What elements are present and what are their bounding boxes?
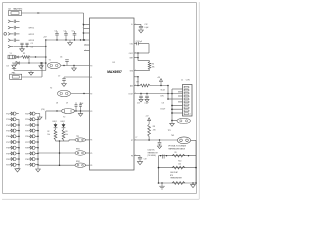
LED column B bus: [37, 119, 39, 164]
svg-text:470: 470: [153, 129, 156, 131]
wire OSC pin stub: [134, 57, 138, 59]
junction column B: [37, 136, 39, 138]
ground on T1 wire: [73, 66, 75, 69]
debounce capacitor C2: [25, 42, 28, 44]
LED column A cathode bus: [18, 119, 20, 164]
pushbutton PB1 body: [10, 74, 22, 79]
svg-text:P13: P13: [6, 119, 9, 121]
svg-text:P5: P5: [90, 153, 92, 155]
ground below bus2: [171, 121, 173, 124]
earth ground network: [161, 183, 163, 186]
wire PB1 riser: [41, 63, 43, 77]
svg-text:GPO2: GPO2: [29, 34, 35, 36]
svg-text:SW1: SW1: [76, 149, 80, 151]
capacitor C13 series loop: [134, 43, 137, 45]
svg-text:R7: R7: [137, 82, 139, 84]
diode D1 top row: [14, 56, 15, 58]
plug P1 body: [177, 118, 190, 123]
resistor R6 in loop: [149, 60, 151, 63]
junction column B: [37, 158, 39, 160]
wire ladder join node: [55, 140, 57, 141]
resistor R9: [172, 154, 185, 157]
wire row5 to +5V corner: [14, 46, 46, 48]
wire TP1 to right edge: [191, 139, 196, 141]
ground right oscillator block: [40, 63, 42, 66]
wire vertical bus at MAX6957 left pins: [83, 13, 85, 40]
oscillator module U2 body: [9, 11, 22, 16]
svg-text:T2: T2: [50, 88, 52, 90]
svg-text:LED2: LED2: [61, 121, 65, 123]
resistor R2 vertical: [54, 130, 57, 140]
svg-text:C19: C19: [144, 158, 147, 160]
svg-text:P21: P21: [6, 165, 9, 167]
svg-text:P25: P25: [25, 131, 28, 133]
dot bus crossing: [83, 39, 85, 41]
svg-text:DOUT: DOUT: [161, 108, 166, 110]
svg-text:C2: C2: [31, 47, 33, 49]
svg-text:(P6): (P6): [41, 109, 45, 111]
resistor R3 vertical: [62, 130, 65, 140]
junction column A: [18, 124, 20, 126]
svg-text:P3: P3: [90, 111, 92, 113]
svg-text:P23: P23: [25, 119, 28, 121]
svg-text:R8: R8: [153, 126, 155, 128]
ground oscillator block: [30, 71, 32, 73]
svg-text:Y1: Y1: [10, 53, 12, 55]
junction column B: [37, 124, 39, 126]
junction column B: [37, 153, 39, 155]
svg-text:P29: P29: [25, 153, 28, 155]
junction column B: [37, 147, 39, 149]
svg-text:P2: P2: [90, 93, 92, 95]
wire bus1 to connector: [168, 98, 183, 100]
svg-text:R9: R9: [175, 152, 177, 154]
capacitor C12: [139, 25, 143, 27]
wire R7 to connector bus: [150, 85, 168, 87]
svg-text:R10: R10: [178, 161, 181, 163]
capacitor C16: [146, 94, 148, 96]
wire into crystal Y2: [46, 110, 61, 112]
wire pin P8 stub: [134, 154, 140, 156]
svg-text:THERMOMETER: THERMOMETER: [170, 178, 183, 180]
junction column A: [18, 136, 20, 138]
wire network middle: [159, 167, 197, 169]
wire T1 to IC: [61, 65, 90, 67]
svg-text:39k: 39k: [152, 67, 155, 69]
junction column A: [18, 141, 20, 143]
wire pin row to C7: [64, 76, 90, 78]
svg-text:0.1µF: 0.1µF: [144, 27, 148, 29]
svg-text:TH1: TH1: [171, 135, 174, 137]
svg-text:P6: P6: [90, 165, 92, 167]
debounce capacitor C1: [20, 42, 23, 44]
wire Y2 to IC: [75, 110, 90, 112]
transducer T1 body: [48, 62, 61, 68]
svg-text:(YSI 44006): (YSI 44006): [148, 155, 157, 157]
wire stub down to R7 row: [137, 77, 139, 86]
junction column B: [37, 130, 39, 132]
capacitor C17: [159, 140, 161, 142]
svg-text:MAX6957: MAX6957: [107, 70, 122, 74]
input arrow row 2: [8, 26, 10, 29]
wire node to TP2: [64, 140, 70, 142]
wire bus2 to connector row2: [172, 108, 183, 110]
svg-text:D3: D3: [7, 66, 9, 68]
connector bus vertical 2: [171, 89, 173, 121]
thermocouple plug TP2 body: [75, 138, 86, 142]
svg-text:TP3: TP3: [168, 130, 171, 132]
svg-text:C1: C1: [31, 43, 33, 45]
svg-text:P24: P24: [25, 125, 28, 127]
wire ISET loop bottom: [134, 70, 150, 72]
svg-text:P7: P7: [131, 140, 133, 142]
switch SW1 body: [75, 151, 86, 155]
wire node drop vertical: [59, 141, 61, 165]
wire PB1 to net: [22, 76, 42, 78]
input arrow row 5: [8, 45, 10, 48]
svg-text:C7: C7: [58, 75, 60, 77]
wire C13 loop right side: [148, 44, 150, 53]
ground under C9: [80, 111, 82, 114]
wire bottom row oscillator block: [14, 70, 46, 72]
svg-text:GPO1: GPO1: [29, 28, 35, 30]
svg-text:P12: P12: [6, 114, 9, 116]
chassis ground network right: [192, 183, 194, 185]
ground C19: [137, 162, 142, 165]
capacitor C19: [139, 155, 141, 157]
junction OSC pins: [137, 52, 139, 54]
junction column B: [37, 164, 39, 166]
transducer T2 body: [58, 90, 71, 96]
svg-text:P15: P15: [6, 131, 9, 133]
svg-text:10k: 10k: [65, 134, 68, 136]
MAX6957 left pin stubs top cluster: [84, 24, 90, 26]
svg-text:P20: P20: [6, 159, 9, 161]
svg-text:P7: P7: [136, 137, 138, 139]
diode D2 row wire: [12, 62, 46, 64]
svg-text:P0: P0: [90, 65, 92, 67]
diode D2: [16, 61, 19, 64]
wire +5V corner down: [45, 40, 47, 47]
node 1 balloon: [4, 33, 7, 36]
wire bus2 to connector row3: [172, 112, 183, 114]
svg-text:DOUT: DOUT: [129, 93, 133, 95]
input arrow row 3: [8, 33, 10, 36]
thermistor plug TP1: [177, 137, 190, 144]
junction column A: [18, 158, 20, 160]
connector J1 pin pads: [184, 86, 188, 88]
input arrow row 1: [8, 20, 10, 23]
LED D3: [55, 123, 57, 124]
svg-text:P14: P14: [6, 125, 9, 127]
network right vertical: [195, 156, 197, 183]
MAX6957 left pin stub row6: [84, 50, 90, 52]
wire network top: [159, 155, 197, 157]
junction column A: [18, 147, 20, 149]
svg-text:P4: P4: [90, 140, 92, 142]
resistor R1: [22, 56, 31, 59]
pin stub row below ISET: [134, 76, 138, 78]
resistor R11: [172, 182, 185, 185]
wire pin to C12: [134, 23, 141, 25]
svg-text:OSC2: OSC2: [129, 53, 133, 55]
wire thermistor bus: [134, 139, 178, 141]
LED column B hook row1: [38, 113, 40, 115]
svg-text:P19: P19: [6, 153, 9, 155]
page border frame: [3, 3, 197, 194]
crystal Y2 body: [62, 109, 75, 114]
network left vertical: [158, 156, 160, 183]
wire +5V bus horizontal: [46, 39, 90, 41]
connector J1 body: [183, 85, 193, 117]
ground on +5V bus: [69, 40, 71, 43]
junction column A: [18, 153, 20, 155]
stub crystal to diode row: [28, 57, 30, 63]
junction column B: [37, 141, 39, 143]
svg-text:C12: C12: [144, 24, 147, 26]
svg-text:P18: P18: [6, 148, 9, 150]
svg-text:0.1µF: 0.1µF: [145, 102, 149, 104]
svg-text:P16: P16: [6, 136, 9, 138]
svg-text:C9: C9: [66, 103, 68, 105]
page edge shadow right: [198, 2, 200, 199]
svg-text:P28: P28: [25, 148, 28, 150]
resistor R8 vertical: [148, 121, 150, 125]
svg-text:J1: J1: [181, 79, 183, 81]
svg-text:GPO3: GPO3: [29, 40, 35, 42]
svg-text:C4: C4: [64, 31, 66, 33]
svg-text:C8: C8: [56, 103, 58, 105]
junction column A: [18, 130, 20, 132]
svg-text:P26: P26: [25, 136, 28, 138]
svg-text:P17: P17: [6, 142, 9, 144]
ground below C7: [62, 84, 67, 87]
svg-text:R3: R3: [65, 131, 67, 133]
series element row 1: [13, 20, 15, 23]
ground LED column A: [18, 165, 20, 169]
wire vertical +5V branch: [45, 47, 47, 71]
resistor R7: [134, 85, 140, 87]
wire T2 to IC: [71, 93, 90, 95]
ground LED column B: [37, 165, 39, 169]
svg-text:10: 10: [189, 114, 191, 116]
wire switch row A: [38, 152, 75, 154]
wire TP2 to IC: [86, 139, 90, 141]
svg-text:SW2: SW2: [76, 161, 80, 163]
svg-text:C3: C3: [55, 31, 57, 33]
wire OSC from U2 to MAX6957: [22, 12, 84, 14]
ground C17: [157, 146, 161, 149]
svg-text:P22: P22: [25, 114, 28, 116]
series element row 3: [13, 32, 15, 35]
ground C12: [139, 30, 144, 33]
svg-text:10kΩ NTC: 10kΩ NTC: [148, 150, 156, 152]
capacitor C18 on top wire: [161, 155, 163, 159]
connector bus vertical 1: [167, 86, 169, 100]
MAX6957 left pin stub row5: [84, 44, 90, 46]
series element row 2: [13, 26, 15, 29]
wire ISET loop top: [138, 60, 150, 62]
junction bus2 plug row: [171, 120, 173, 122]
input arrow row 4: [8, 39, 10, 42]
wire R1 to bus: [30, 56, 46, 58]
svg-text:THERMISTOR: THERMISTOR: [148, 152, 159, 154]
LED D4: [63, 123, 65, 124]
svg-text:ISET: ISET: [130, 57, 133, 59]
svg-text:P30: P30: [25, 159, 28, 161]
svg-text:P1: P1: [90, 77, 92, 79]
switch SW2 body: [75, 163, 86, 167]
junction R8 bottom: [148, 136, 150, 138]
crystal Y1 body: [8, 55, 14, 59]
load capacitor C9: [80, 102, 82, 105]
svg-text:LED1: LED1: [53, 121, 57, 123]
supply flag R8: [148, 118, 151, 121]
svg-text:Y2: Y2: [63, 116, 65, 118]
wire bus2 top: [172, 88, 183, 90]
wire switch row B: [38, 164, 75, 166]
wire bus2 to connector: [172, 105, 183, 107]
svg-text:T1: T1: [49, 59, 51, 61]
zener D3: [13, 63, 15, 65]
svg-text:P8: P8: [131, 155, 133, 157]
wire SW2 to IC: [86, 164, 90, 166]
ground below debounce: [21, 47, 23, 49]
svg-text:C5: C5: [72, 31, 74, 33]
junction column B: [37, 119, 39, 121]
ground C16: [145, 99, 149, 102]
svg-text:C15: C15: [137, 102, 140, 104]
svg-text:R6: R6: [152, 64, 154, 66]
connector stub rows: [178, 91, 183, 93]
+5V supply flag right: [160, 79, 163, 82]
IC U1 MAX6957 body: [90, 18, 135, 170]
wire DOUT row: [134, 93, 183, 95]
wire SW1 to IC: [86, 152, 90, 154]
debounce junction dots row 5: [21, 46, 23, 48]
svg-text:V+: V+: [131, 24, 133, 26]
wire stub down at P6 corner: [45, 111, 47, 120]
wire bus2 to plug P1: [172, 120, 177, 122]
svg-text:100: 100: [178, 164, 181, 166]
svg-text:TP2: TP2: [76, 136, 79, 138]
svg-text:R1: R1: [23, 53, 25, 55]
wire network bottom: [159, 182, 197, 184]
svg-text:C6: C6: [60, 56, 62, 58]
load capacitor C8: [75, 102, 77, 105]
capacitor C15: [140, 94, 142, 96]
svg-text:10k: 10k: [47, 134, 50, 136]
resistor R10: [172, 166, 185, 169]
page edge shadow bottom: [2, 198, 199, 200]
series element row 4: [13, 39, 15, 42]
svg-text:P27: P27: [25, 142, 28, 144]
svg-text:P31: P31: [25, 165, 28, 167]
junction column A: [18, 164, 20, 166]
svg-text:R2: R2: [47, 131, 49, 133]
junction dots on bus near IC: [80, 39, 81, 40]
ground C15: [139, 99, 143, 102]
